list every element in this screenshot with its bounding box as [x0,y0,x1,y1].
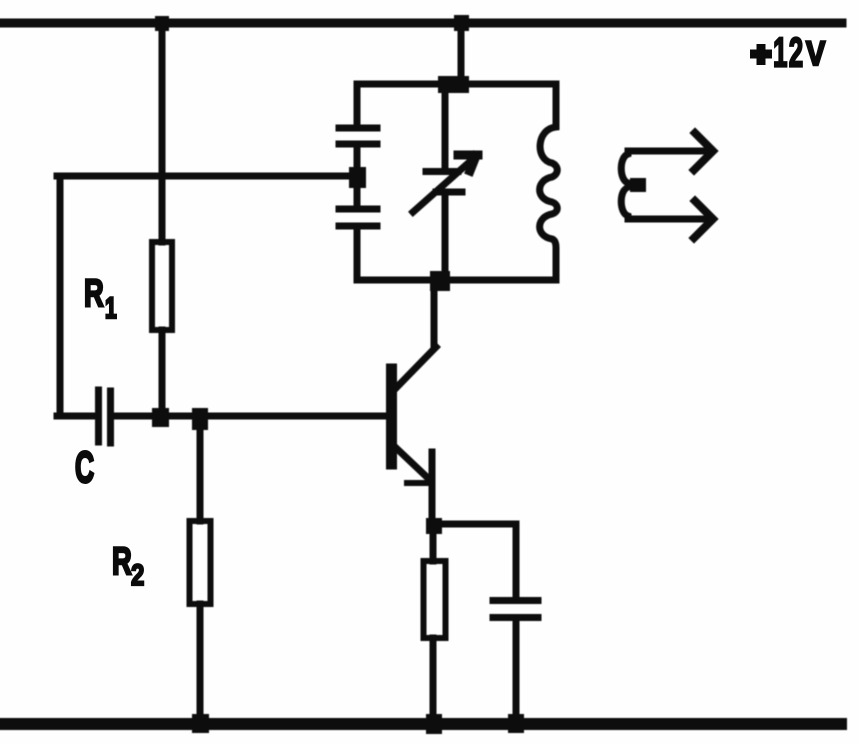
ground rail (bottom) [0,718,841,730]
capacitor C [95,390,102,442]
output coil secondary bottom conductor [628,216,704,223]
node junction bypass/ground [508,714,524,733]
svg-text:R: R [112,540,132,583]
wire left vertical [57,176,64,416]
wire emitter node to bypass branch [433,521,516,528]
transistor Q1 emitter lead [393,445,430,480]
wire R2 top [197,416,204,521]
wire emitter resistor to ground [430,638,437,724]
wire tank left upper [354,84,361,125]
node junction tank bottom [430,271,450,291]
wire R1 drop from +12V rail [159,23,166,242]
output coil secondary left winding [621,151,628,219]
variable capacitor CV plates [426,168,458,175]
wire feedback tap horizontal [57,173,357,180]
wire tank left lower [354,229,361,280]
svg-text:2: 2 [131,557,144,591]
tank bottom edge [357,277,556,284]
wire emitter resistor top [430,527,437,561]
variable capacitor arrow [413,158,474,212]
wire left bottom to capacitor C [57,413,95,420]
output arrow bottom [694,201,713,238]
wire collector vertical [431,280,438,347]
output coil secondary top conductor [628,148,704,155]
svg-text:V: V [806,34,825,73]
wire variable-capacitor branch lower [442,195,449,280]
inductor L1 tank coil (right edge) [540,84,558,280]
wire base node horizontal [114,413,386,420]
node junction tap/tank left [349,167,366,188]
node junction rail/R1 [155,16,169,31]
resistor RE emitter [424,561,446,638]
node junction RE/ground [426,714,442,734]
node junction R1/base wire [152,408,169,427]
capacitor CE bypass [493,597,538,604]
capacitor C1 (divider upper) [339,125,377,132]
transistor Q1 base bar [386,369,397,464]
svg-text:R: R [84,272,104,315]
node junction rail/tank drop [454,15,469,31]
node junction tank top [438,76,469,93]
svg-text:C: C [75,442,94,492]
wire tank left middle [354,147,361,206]
wire R2 to ground [197,604,204,724]
wire R1 to base node [159,330,166,416]
svg-text:12: 12 [773,29,804,76]
wire tank drop from +12V rail [458,23,465,84]
output arrow top [694,133,713,170]
capacitor C2 (divider lower) [339,206,377,213]
resistor R1 [152,242,172,330]
label +12 v [750,29,825,76]
wire emitter vertical [429,452,436,527]
+12V supply rail (top) [0,19,842,28]
wire variable-capacitor branch upper [442,84,449,168]
wire bypass branch lower [513,621,520,724]
node junction R2/base wire [192,408,208,430]
node junction R2/ground [192,714,209,733]
transistor Q1 emitter arrow tick [407,480,432,486]
node junction emitter [426,518,442,534]
transistor Q1 collector lead [396,347,436,388]
resistor R2 [190,521,211,604]
tank top edge [357,81,556,88]
wire bypass branch upper [513,524,520,597]
output coil center tap dot [630,178,646,192]
svg-text:1: 1 [105,293,117,325]
